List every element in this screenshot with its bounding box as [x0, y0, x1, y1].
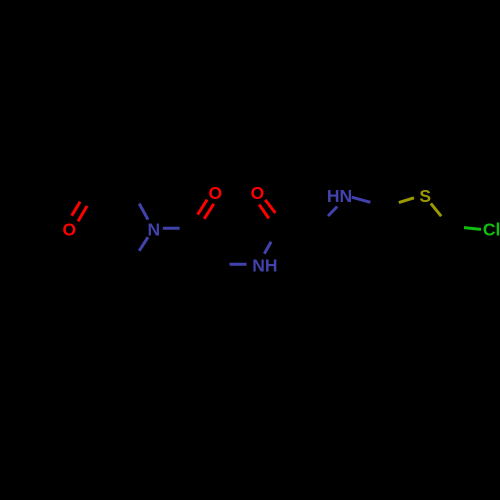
svg-text:O: O — [208, 183, 222, 203]
bond N1 right blue half — [163, 227, 180, 230]
bond N1 down-left blue half — [139, 237, 148, 251]
bond S down-right olive half — [431, 203, 441, 216]
bond Cl left green half — [464, 228, 481, 230]
bond C=O3 double bond red half line 2 — [259, 205, 269, 219]
bond S left olive half — [399, 198, 414, 203]
svg-text:Cl: Cl — [483, 219, 500, 239]
svg-text:O: O — [251, 183, 265, 203]
svg-text:NH: NH — [252, 256, 277, 276]
bond N3 down-left blue half — [328, 207, 337, 216]
svg-text:S: S — [419, 186, 431, 206]
svg-text:N: N — [147, 220, 160, 240]
bond N1 up-left blue half — [139, 204, 148, 220]
bond C=O2 double bond red half line 1 — [198, 200, 208, 215]
bond N2 up-right blue half — [264, 242, 271, 254]
bond C=O1 double bond red half line 2 — [78, 206, 87, 221]
svg-text:HN: HN — [327, 186, 352, 206]
bond C=O1 double bond red half line 1 — [72, 202, 80, 216]
bond C=O2 double bond red half line 2 — [204, 204, 214, 219]
svg-text:O: O — [62, 219, 76, 239]
bond C=O3 double bond red half line 1 — [265, 200, 275, 213]
bond N2 left blue half — [230, 263, 247, 266]
bond N3 right blue half — [352, 197, 371, 202]
